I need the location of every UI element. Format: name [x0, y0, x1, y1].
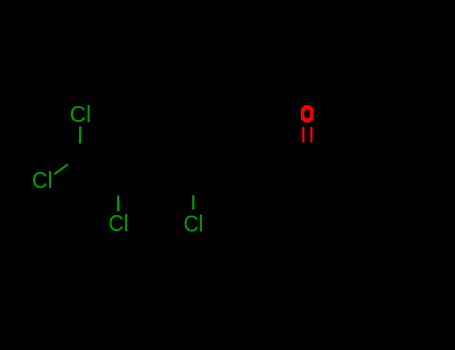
carbon skeleton bond C7-C8 to phenyl ring (black, invisible)	[307, 158, 345, 180]
svg-text:Cl: Cl	[32, 167, 53, 193]
svg-text:Cl: Cl	[109, 210, 129, 236]
oxygen label O (carbonyl)	[301, 105, 313, 122]
svg-text:Cl: Cl	[70, 101, 91, 127]
carbon skeleton bond C4=C5 (black, invisible)	[193, 158, 231, 181]
svg-text:Cl: Cl	[184, 210, 204, 236]
C7=O double bond stub right line (red half)	[310, 127, 312, 142]
carbon skeleton bond C6-C7 carbonyl (black, invisible)	[269, 158, 307, 180]
carbon skeleton bond C3-C4 (black, invisible)	[157, 158, 193, 181]
benzene ring (black, invisible)	[345, 158, 421, 246]
C1-Cl bond stub to left Cl (green half, diagonal)	[54, 164, 68, 174]
C7=O double bond stub left line (red half)	[302, 127, 304, 142]
C2-Cl bond stub (green half)	[117, 195, 119, 211]
carbon skeleton bond C2-C3 (black, invisible)	[119, 158, 158, 180]
carbon skeleton bond C5-C6 (black, invisible)	[231, 158, 269, 180]
carbon skeleton bond C1=C2 (black, invisible on black)	[80, 158, 119, 180]
C4-Cl bond stub (green half)	[192, 195, 194, 209]
C1-Cl bond stub to upper Cl (green half)	[79, 127, 81, 144]
